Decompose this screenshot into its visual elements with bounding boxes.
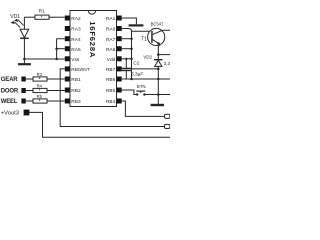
wire emitter branch to edge bbox=[158, 54, 170, 56]
svg-text:RA5: RA5 bbox=[71, 47, 81, 53]
svg-text:BTN: BTN bbox=[137, 84, 146, 89]
svg-text:DOOR: DOOR bbox=[1, 89, 19, 95]
node RB6-V junction bbox=[130, 78, 133, 81]
node Vss junction bbox=[55, 58, 58, 61]
node RA6 junction bbox=[130, 47, 133, 50]
svg-text:RA0: RA0 bbox=[106, 27, 116, 33]
node RB7 junction bbox=[157, 68, 160, 71]
resistor R1 bbox=[35, 15, 49, 19]
pin RB4 (right row9) bbox=[117, 99, 122, 104]
pin RB0/INT (left row6) bbox=[65, 66, 70, 71]
svg-text:3,3: 3,3 bbox=[164, 61, 170, 66]
svg-text:BC547: BC547 bbox=[151, 22, 164, 27]
wire button to edge bbox=[146, 94, 171, 96]
wire RA0 to T1 base with down branch bbox=[122, 29, 132, 80]
pin RA7 (right row3) bbox=[117, 36, 122, 41]
wire RA7 tie bbox=[122, 38, 132, 40]
svg-text:RB6: RB6 bbox=[106, 77, 116, 83]
pin Vdd (right row5) bbox=[117, 56, 122, 61]
svg-text:Vss: Vss bbox=[71, 57, 80, 63]
node RA5 junction bbox=[55, 47, 58, 50]
wire R3 to pin RB1 bbox=[47, 78, 65, 80]
svg-text:R4: R4 bbox=[37, 84, 43, 89]
wire RA4 tie bbox=[57, 39, 65, 59]
wire RA1 to ground bbox=[122, 18, 137, 24]
wire Vss to ground rail bbox=[24, 58, 64, 60]
wire RB6 line to edge bbox=[122, 78, 170, 80]
pin RA4 (left row3) bbox=[65, 36, 70, 41]
svg-text:C2: C2 bbox=[133, 60, 139, 65]
resistor R5 bbox=[33, 99, 47, 103]
wire RB0/INT down-around bbox=[60, 69, 164, 127]
node button-rail junction bbox=[157, 93, 160, 96]
node emitter branch bbox=[157, 53, 160, 56]
zener VD2 bbox=[154, 60, 163, 104]
svg-text:RA2: RA2 bbox=[71, 16, 81, 22]
wire RA5 tie bbox=[57, 48, 65, 50]
svg-text:VD2: VD2 bbox=[143, 55, 152, 60]
svg-text:RB1: RB1 bbox=[71, 77, 81, 83]
svg-text:RB3: RB3 bbox=[71, 99, 81, 105]
capacitor C2 bbox=[122, 59, 131, 79]
svg-text:Vdd: Vdd bbox=[107, 57, 116, 63]
svg-text:16F628A: 16F628A bbox=[88, 21, 97, 58]
wire R4 to pin RB2 bbox=[47, 90, 65, 92]
wire WEEL to R5 bbox=[26, 100, 33, 102]
wire RB5 to button bbox=[122, 90, 136, 95]
pin RB2 (left row8) bbox=[65, 88, 70, 93]
connector +Vout3 pad bbox=[24, 110, 30, 116]
ground (emitter rail) bbox=[151, 104, 164, 106]
connector DOOR pad bbox=[21, 88, 25, 93]
wire RB4 to lug bbox=[122, 101, 165, 116]
wire Vdd bbox=[122, 58, 132, 60]
pin RB5 (right row8) bbox=[117, 88, 122, 93]
wire DOOR to R4 bbox=[26, 90, 33, 92]
pin RB1 (left row7) bbox=[65, 77, 70, 82]
connector GEAR pad bbox=[21, 77, 25, 82]
pin RB7 (right row6) bbox=[117, 66, 122, 71]
wire LED anode to R1 bbox=[24, 16, 35, 18]
pin RA1 (right row1) bbox=[117, 16, 122, 21]
pushbutton BTN bbox=[136, 91, 146, 96]
ground (RA1) bbox=[129, 24, 144, 26]
connector WEEL pad bbox=[21, 99, 25, 104]
pin RB6 (right row7) bbox=[117, 77, 122, 82]
svg-text:WEEL: WEEL bbox=[1, 99, 18, 105]
connector lug (RB4 line) bbox=[165, 114, 170, 118]
node RB6-rail junction bbox=[157, 78, 160, 81]
node RA7 junction bbox=[130, 37, 133, 40]
node Vdd junction bbox=[130, 58, 133, 61]
wire GEAR to R3 bbox=[26, 78, 33, 80]
pin RA6 (right row4) bbox=[117, 46, 122, 51]
wire R1 to pin RA2 bbox=[49, 16, 65, 18]
svg-text:VD1: VD1 bbox=[10, 14, 20, 20]
pin Vss (left row5) bbox=[65, 56, 70, 61]
transistor T1 bbox=[148, 28, 170, 59]
svg-text:GEAR: GEAR bbox=[1, 77, 18, 83]
svg-text:R1: R1 bbox=[39, 9, 45, 15]
IC U1 body 16F628A bbox=[70, 11, 117, 107]
node C2 top junction bbox=[125, 58, 127, 60]
pin RA2 (left row1) bbox=[65, 16, 70, 21]
connector lug (RB0 line) bbox=[165, 124, 170, 128]
svg-text:RA7: RA7 bbox=[106, 37, 116, 43]
ground (LED / Vss) bbox=[18, 59, 31, 64]
wire RB7 tie to emitter rail bbox=[122, 68, 159, 70]
svg-text:3,3µF: 3,3µF bbox=[131, 72, 143, 78]
svg-text:RB7: RB7 bbox=[106, 67, 116, 73]
node LED-Vss junction bbox=[23, 58, 26, 61]
svg-text:RB2: RB2 bbox=[71, 88, 81, 94]
svg-text:RB5: RB5 bbox=[106, 88, 116, 94]
LED arrows bbox=[11, 19, 24, 28]
wire +Vout3 to bottom rail bbox=[29, 112, 170, 137]
pin RA3 (left row2) bbox=[65, 26, 70, 31]
LED VD1 bbox=[20, 17, 29, 59]
resistor R3 bbox=[33, 77, 47, 81]
svg-text:RA6: RA6 bbox=[106, 47, 116, 53]
svg-text:R5: R5 bbox=[37, 94, 43, 99]
svg-text:R3: R3 bbox=[37, 72, 43, 77]
svg-text:+Vout3: +Vout3 bbox=[1, 111, 19, 117]
svg-text:T1: T1 bbox=[141, 36, 147, 42]
wire RA6 tie bbox=[122, 48, 132, 50]
svg-text:RB4: RB4 bbox=[106, 99, 116, 105]
wire R5 to pin RB3 bbox=[47, 100, 65, 102]
svg-text:RB0/INT: RB0/INT bbox=[71, 67, 89, 73]
svg-text:RA3: RA3 bbox=[71, 27, 81, 33]
pin RA5 (left row4) bbox=[65, 46, 70, 51]
svg-text:RA1: RA1 bbox=[106, 16, 116, 22]
pin RB3 (left row9) bbox=[65, 99, 70, 104]
svg-text:RA4: RA4 bbox=[71, 37, 81, 43]
resistor R4 bbox=[33, 88, 47, 92]
pin RA0 (right row2) bbox=[117, 26, 122, 31]
